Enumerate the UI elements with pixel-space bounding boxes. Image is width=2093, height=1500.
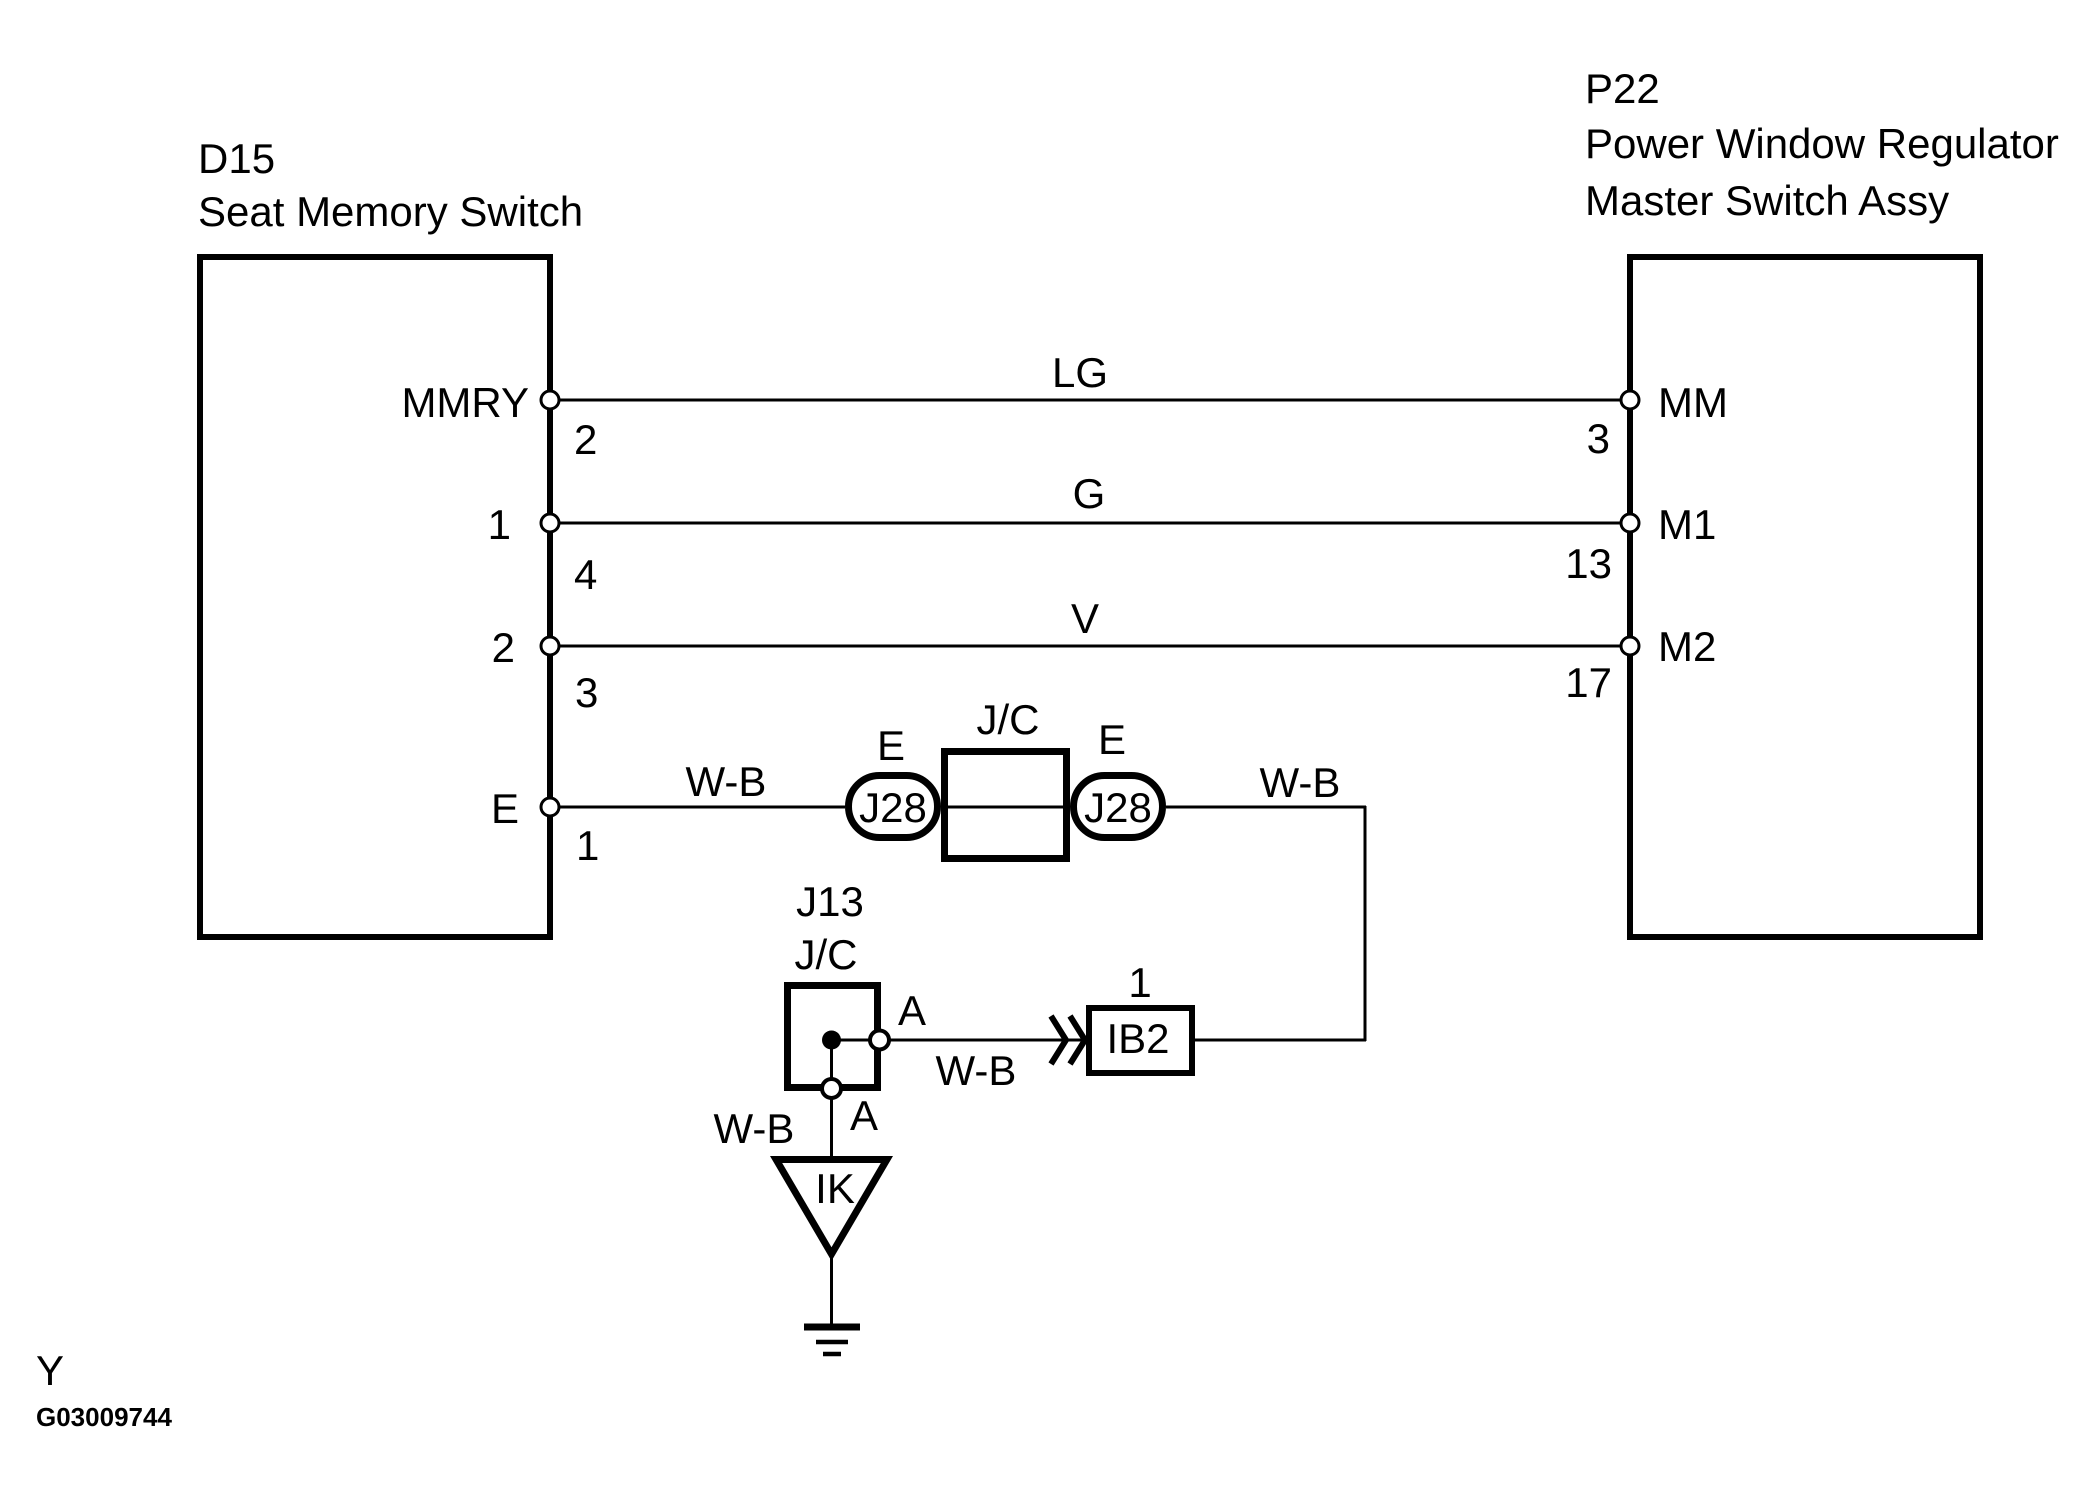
wire V	[553, 645, 1627, 648]
svg-text:IK: IK	[815, 1165, 855, 1212]
svg-text:P22: P22	[1585, 65, 1660, 112]
svg-text:V: V	[1071, 595, 1099, 642]
svg-text:4: 4	[574, 551, 597, 598]
svg-text:M1: M1	[1658, 501, 1716, 548]
ground symbol bar 2	[816, 1340, 848, 1345]
pin A bottom circle of J13	[822, 1079, 841, 1098]
svg-text:D15: D15	[198, 135, 275, 182]
svg-text:Power Window Regulator: Power Window Regulator	[1585, 120, 2059, 167]
svg-text:J28: J28	[859, 784, 927, 831]
wire from triangle to ground	[830, 1258, 833, 1324]
wire from corner to IB2	[1192, 1039, 1366, 1042]
connector J28 left oval	[849, 776, 938, 838]
wire LG	[553, 399, 1627, 402]
svg-text:1: 1	[1128, 959, 1151, 1006]
svg-text:A: A	[850, 1092, 878, 1139]
svg-text:J/C: J/C	[795, 931, 858, 978]
wire G	[553, 522, 1627, 525]
svg-text:M2: M2	[1658, 623, 1716, 670]
svg-text:13: 13	[1565, 540, 1612, 587]
svg-text:E: E	[877, 722, 905, 769]
pin M1 circle	[1621, 514, 1639, 532]
svg-text:MM: MM	[1658, 379, 1728, 426]
svg-text:E: E	[491, 785, 519, 832]
svg-text:W-B: W-B	[686, 758, 767, 805]
pin 1 circle	[541, 514, 559, 532]
svg-text:3: 3	[575, 669, 598, 716]
svg-text:A: A	[898, 987, 926, 1034]
ground triangle IK inner	[782, 1163, 881, 1247]
pin MM circle	[1621, 391, 1639, 409]
svg-text:2: 2	[574, 416, 597, 463]
pin MMRY circle	[541, 391, 559, 409]
svg-text:2: 2	[492, 624, 515, 671]
connector J28 right oval	[1074, 776, 1163, 838]
svg-text:3: 3	[1587, 415, 1610, 462]
svg-text:G: G	[1073, 470, 1106, 517]
svg-text:W-B: W-B	[936, 1047, 1017, 1094]
ground symbol bar 3	[823, 1352, 841, 1357]
arrow chevron 1	[1051, 1016, 1066, 1064]
wire through junction connector J/C	[941, 806, 1070, 809]
svg-text:MMRY: MMRY	[401, 379, 529, 426]
svg-text:Master Switch Assy: Master Switch Assy	[1585, 177, 1949, 224]
svg-text:J13: J13	[796, 878, 864, 925]
svg-text:Seat Memory Switch: Seat Memory Switch	[198, 188, 583, 235]
ground symbol bar 1	[804, 1324, 860, 1331]
svg-text:E: E	[1098, 716, 1126, 763]
connector P22 box	[1630, 257, 1980, 937]
svg-text:1: 1	[488, 501, 511, 548]
wire from J13 to IB2	[879, 1039, 1088, 1042]
wire W-B from pin E to junction J28	[553, 806, 845, 809]
svg-text:W-B: W-B	[1260, 759, 1341, 806]
svg-text:W-B: W-B	[714, 1105, 795, 1152]
pin 2 circle	[541, 637, 559, 655]
svg-text:17: 17	[1565, 659, 1612, 706]
pin A right circle of J13	[870, 1031, 889, 1050]
svg-text:IB2: IB2	[1106, 1015, 1169, 1062]
svg-text:Y: Y	[36, 1347, 64, 1394]
svg-text:J28: J28	[1084, 784, 1152, 831]
svg-text:G03009744: G03009744	[36, 1402, 172, 1432]
pin M2 circle	[1621, 637, 1639, 655]
wire inside J13 from node to pin A	[831, 1039, 879, 1042]
node junction dot	[822, 1031, 841, 1050]
svg-text:1: 1	[576, 822, 599, 869]
wire inside J13 from node down	[830, 1040, 833, 1156]
ground triangle IK outer	[770, 1156, 893, 1261]
svg-text:J/C: J/C	[977, 696, 1040, 743]
junction block J13 box	[788, 986, 878, 1088]
arrow chevron 2	[1070, 1016, 1085, 1064]
connector D15 box	[200, 257, 550, 937]
wire W-B from J28 to corner	[1166, 806, 1366, 809]
junction block J/C box	[945, 752, 1067, 859]
wire vertical down right side	[1364, 806, 1367, 1041]
pin E circle	[541, 798, 559, 816]
connector IB2 box	[1089, 1008, 1192, 1073]
svg-text:LG: LG	[1052, 349, 1108, 396]
